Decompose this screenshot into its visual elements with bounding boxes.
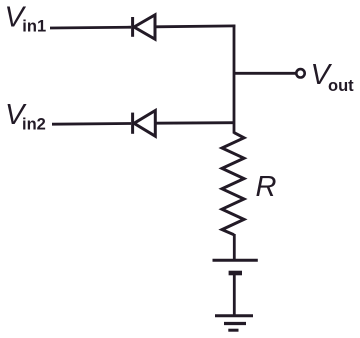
ground bar 3 [228, 329, 238, 332]
wire node A to Vout terminal [234, 72, 296, 75]
svg-text:in1: in1 [22, 18, 46, 36]
resistor R [222, 133, 244, 235]
diode D2 [133, 111, 156, 137]
wire battery to ground [233, 275, 236, 316]
node Vin2 label [5, 99, 46, 133]
battery BT1 negative plate [229, 271, 242, 276]
wire D1 to node A [155, 24, 235, 28]
node Vin1 label [5, 1, 47, 35]
wire vertical bus [233, 25, 236, 134]
wire resistor to battery [233, 234, 236, 259]
diode D1 [133, 15, 155, 39]
battery BT1 positive plate [213, 259, 258, 262]
value label R [256, 171, 277, 203]
node Vout label [311, 59, 355, 95]
terminal Vout circle [296, 69, 304, 77]
ground bar 1 [215, 314, 253, 317]
ground bar 2 [224, 322, 246, 325]
wire Vin2 to diode D2 [52, 122, 131, 125]
svg-text:R: R [256, 171, 277, 203]
svg-text:in2: in2 [22, 115, 46, 133]
svg-text:out: out [328, 77, 354, 95]
wire D2 to node B [155, 121, 234, 124]
wire Vin1 to diode D1 [50, 26, 131, 30]
